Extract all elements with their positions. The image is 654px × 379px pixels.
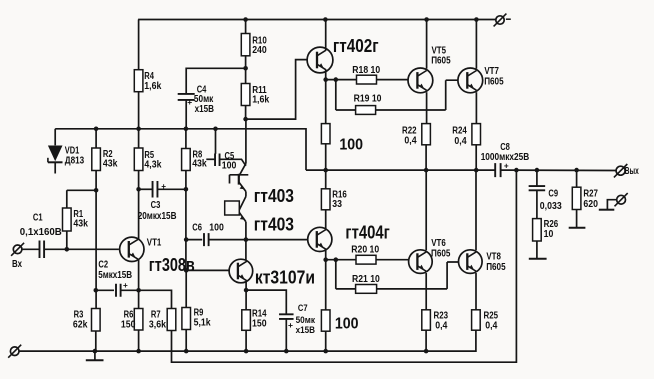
node emitter R20	[323, 257, 328, 262]
svg-text:C2: C2	[98, 260, 108, 271]
resistor R8 43k	[182, 129, 207, 171]
resistor R27 620	[572, 170, 598, 227]
wire VT1 collector	[138, 189, 140, 239]
svg-text:20мкх15В: 20мкх15В	[138, 211, 177, 222]
wire VT5 collector	[426, 92, 428, 123]
capacitor C4 50мк	[178, 68, 246, 129]
capacitor C6 100	[186, 222, 246, 246]
resistor R25 0,4	[472, 310, 499, 332]
capacitor C9 0,033	[529, 170, 562, 219]
resistor R5 4,3k	[134, 129, 161, 190]
wire between гт403s	[245, 192, 247, 197]
transistor U3 гт404г	[308, 222, 390, 252]
wire VT8 bottom	[475, 273, 477, 310]
node кт3107и/C7	[244, 288, 249, 293]
node R9 bottom	[184, 349, 189, 354]
svg-text:4,3k: 4,3k	[144, 159, 161, 170]
svg-text:х15В: х15В	[296, 325, 315, 336]
svg-text:+: +	[288, 320, 293, 330]
svg-text:620: 620	[583, 199, 598, 210]
svg-text:0,4: 0,4	[404, 136, 416, 147]
node emitter R18	[323, 77, 328, 82]
wire VT7 collector	[475, 92, 477, 123]
resistor R16 33	[321, 170, 347, 228]
transistor VD lower гт403	[225, 197, 294, 235]
svg-text:100: 100	[335, 315, 359, 332]
svg-text:1000мкх25В: 1000мкх25В	[481, 152, 530, 163]
zener diode VD1 Д813	[48, 129, 85, 174]
resistor R3 62k	[73, 309, 100, 352]
svg-text:43k: 43k	[73, 219, 88, 230]
node R22 output rail	[424, 168, 429, 173]
node R24 output rail	[474, 168, 479, 173]
resistor R19 10	[336, 80, 458, 115]
svg-text:гт402г: гт402г	[333, 35, 379, 56]
svg-text:R27: R27	[583, 188, 598, 199]
svg-text:0,1х160В: 0,1х160В	[20, 227, 62, 238]
speaker return terminal	[599, 193, 628, 210]
svg-text:43k: 43k	[103, 158, 118, 169]
resistor R21 10	[336, 260, 459, 294]
node R3 bottom	[93, 349, 98, 354]
wire кт3107и base	[186, 269, 229, 271]
svg-text:+: +	[161, 182, 166, 191]
output terminal	[614, 164, 627, 177]
wire гт402г emitter	[325, 70, 327, 80]
transistor VD upper гт403	[230, 164, 295, 207]
resistor R9 5,1k	[182, 270, 211, 351]
wire VT6 bottom	[425, 273, 427, 310]
svg-text:0,4: 0,4	[454, 136, 466, 147]
wire кт3107и bottom	[245, 282, 247, 310]
svg-text:62k: 62k	[73, 320, 88, 331]
svg-text:150: 150	[252, 318, 267, 329]
svg-text:VT1: VT1	[147, 238, 162, 249]
node feedback tap	[514, 168, 519, 173]
node C5 top	[213, 127, 218, 132]
svg-text:+: +	[504, 162, 509, 171]
resistor R22 0,4	[402, 124, 430, 171]
svg-text:43k: 43k	[192, 158, 207, 169]
wire output rail right of C8	[501, 169, 616, 171]
svg-text:гт308в: гт308в	[149, 254, 195, 275]
svg-text:Вых: Вых	[625, 166, 639, 177]
resistor R11 1,6k	[241, 68, 269, 119]
node C6/гт403/кт3107 junction	[244, 237, 249, 242]
node R4 bottom	[136, 127, 141, 132]
resistor R4 1,6k	[134, 20, 161, 129]
wire R1/R2 node line	[67, 189, 96, 191]
svg-text:Д813: Д813	[65, 155, 85, 166]
node C2 left	[94, 288, 99, 293]
node C7 bottom	[284, 349, 289, 354]
node C4/R8 top	[184, 127, 189, 132]
capacitor C1	[20, 213, 67, 259]
svg-text:х15В: х15В	[195, 104, 214, 115]
svg-text:100: 100	[339, 137, 363, 154]
svg-text:100: 100	[209, 222, 224, 233]
wire R3 column	[95, 190, 97, 308]
resistor R1 43k	[63, 190, 89, 249]
wire гт402г collector	[325, 20, 327, 51]
ground terminal (bottom left)	[8, 345, 21, 358]
svg-text:C7: C7	[298, 303, 308, 313]
svg-text:R21 10: R21 10	[352, 274, 380, 285]
svg-text:10: 10	[544, 229, 554, 240]
node R2 bottom	[94, 188, 99, 193]
wire гт403 to C6 node	[245, 222, 247, 240]
capacitor C7 50мк	[246, 290, 315, 351]
resistor R lower 100	[321, 260, 358, 351]
wire кт3107и top	[245, 240, 247, 260]
wire output rail left of C8	[306, 169, 495, 171]
svg-text:Вх: Вх	[12, 259, 22, 270]
svg-text:R24: R24	[452, 125, 467, 136]
wire VT1 emitter chain	[138, 260, 140, 309]
svg-text:П605: П605	[484, 77, 504, 88]
transistor VT6 П605	[409, 238, 451, 273]
svg-text:C9: C9	[548, 188, 558, 199]
svg-text:100: 100	[222, 160, 237, 171]
transistor VT7 П605	[458, 66, 504, 93]
node R2 top	[94, 127, 99, 132]
svg-text:1,6k: 1,6k	[144, 81, 161, 92]
svg-text:C1: C1	[33, 213, 43, 224]
capacitor C5 100	[206, 129, 246, 172]
wire bias rail	[55, 129, 306, 170]
svg-text:5,1k: 5,1k	[194, 318, 211, 329]
svg-text:П605: П605	[431, 248, 451, 259]
node R10/R11/C4	[243, 66, 248, 71]
node base junction	[65, 247, 70, 252]
node VT5 rail	[424, 17, 429, 22]
resistor R6 150	[121, 309, 143, 352]
ground symbol under R3 node	[86, 351, 104, 360]
node C6 left	[184, 237, 189, 242]
transistor VT1 гт308в	[120, 237, 195, 275]
svg-text:1,6k: 1,6k	[252, 95, 269, 106]
svg-text:R18 10: R18 10	[352, 65, 380, 76]
node C9 top	[535, 168, 540, 173]
resistor R18 10	[326, 65, 408, 84]
svg-text:C3: C3	[151, 200, 161, 211]
node emitter R21 tap	[334, 257, 339, 262]
capacitor C8 1000мкх25В	[481, 142, 530, 177]
node R10 top	[243, 17, 248, 22]
wire R11 to гт402г base	[246, 60, 308, 120]
resistor R26 10	[533, 219, 559, 259]
output label Вых	[625, 166, 639, 177]
transistor Q4 кт3107и	[229, 259, 315, 287]
resistor R2 43k	[92, 129, 118, 191]
resistor R20 10	[326, 245, 409, 265]
wire emitter to R7	[139, 290, 172, 308]
node C2 right emitter	[136, 288, 141, 293]
svg-text:П605: П605	[486, 262, 506, 273]
svg-text:кт3107и: кт3107и	[255, 267, 315, 288]
svg-text:гт403: гт403	[254, 185, 294, 206]
node emitter R19 tap	[334, 77, 339, 82]
svg-text:0,033: 0,033	[540, 201, 562, 212]
wire гт404г emitter	[325, 249, 327, 260]
node R23 bottom rail	[424, 349, 429, 354]
transistor VT8 П605	[459, 250, 506, 274]
wire R8 bottom chain	[185, 171, 187, 271]
capacitor C2 5мкх15В	[96, 260, 139, 297]
wire top supply rail	[138, 19, 496, 21]
svg-text:0,4: 0,4	[435, 320, 447, 331]
wire input to C1	[22, 248, 39, 250]
svg-text:+: +	[187, 97, 192, 107]
resistor R24 0,4	[452, 124, 480, 171]
transistor VT5 П605	[408, 45, 451, 93]
svg-text:VT7: VT7	[484, 66, 499, 77]
ground symbol under R26	[529, 258, 547, 260]
node R6 bottom	[136, 349, 141, 354]
wire feedback line	[172, 170, 517, 362]
svg-text:гт404г: гт404г	[345, 222, 390, 243]
power terminal minus (top right)	[494, 14, 511, 27]
node lower 100 on bottom rail	[323, 349, 328, 354]
wire VT5 emitter to rail	[426, 20, 428, 69]
resistor R14 150	[242, 309, 267, 352]
wire VT8 top	[475, 170, 477, 250]
input terminal Vx	[11, 243, 24, 270]
wire VT7 emitter to rail	[475, 20, 477, 69]
wire C1 to VT1 base	[67, 248, 119, 250]
svg-text:0,4: 0,4	[485, 320, 497, 331]
svg-text:150: 150	[121, 320, 136, 331]
node 100/R16 on output rail	[323, 168, 328, 173]
transistor U2 гт402г	[307, 35, 379, 73]
wire chain into гт403	[245, 119, 247, 163]
resistor R23 0,4	[422, 310, 448, 351]
svg-text:240: 240	[252, 45, 267, 56]
node VT1 collector / R5 / C3	[136, 187, 141, 192]
capacitor C3 20мкх15В	[138, 181, 186, 222]
wire VT6 top	[425, 170, 427, 250]
svg-text:C6: C6	[192, 222, 202, 233]
ground symbol under R27	[569, 227, 586, 229]
node VT7 rail	[474, 17, 479, 22]
node base/R9 junction	[184, 268, 189, 273]
svg-text:33: 33	[332, 199, 342, 210]
resistor R7 3,6k	[149, 309, 176, 331]
svg-text:гт403: гт403	[254, 214, 294, 235]
resistor R upper 100	[321, 80, 363, 171]
svg-text:П605: П605	[431, 56, 451, 67]
resistor R10 240	[241, 20, 267, 69]
svg-text:3,6k: 3,6k	[149, 320, 166, 331]
node R14 bottom	[244, 349, 249, 354]
svg-text:R20 10: R20 10	[351, 245, 379, 256]
node гт402г collector rail	[323, 17, 328, 22]
node C3 right on R8 chain	[184, 187, 189, 192]
wire base гт404г	[246, 239, 308, 241]
svg-text:5мкх15В: 5мкх15В	[98, 270, 132, 281]
wire bottom rail	[19, 330, 476, 351]
svg-text:R19 10: R19 10	[354, 94, 382, 105]
node R27 top	[574, 168, 579, 173]
svg-text:+: +	[123, 281, 128, 290]
node bias chain top	[243, 117, 248, 122]
